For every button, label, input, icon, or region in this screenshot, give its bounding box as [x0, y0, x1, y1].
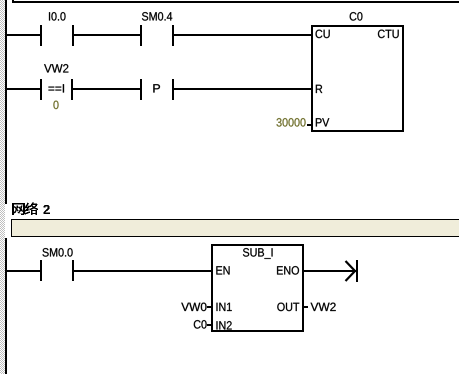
- wire rail to compare contact: [7, 88, 40, 90]
- wire rail to contact SM0.0: [7, 270, 40, 272]
- positive edge contact P: [140, 79, 174, 100]
- network 2 comment bar: [11, 219, 459, 237]
- left margin dither strip: [0, 0, 5, 374]
- IN1 operand VW0: [181, 303, 212, 311]
- SUB_I box: [212, 245, 303, 331]
- contact SM0.0: [40, 248, 74, 281]
- compare contact VW2 ==I 0: [40, 64, 73, 109]
- IN2 operand C0: [194, 320, 211, 328]
- wire I0.0 to SM0.4: [74, 34, 140, 36]
- left power rail network 2: [5, 238, 7, 374]
- PV operand 30000: [277, 118, 312, 126]
- wire P contact to counter R input: [174, 88, 311, 90]
- wire ENO output: [304, 270, 356, 272]
- open branch arrow: [346, 260, 359, 282]
- contact I0.0: [40, 12, 74, 46]
- network 1 comment bar bottom edge: [12, 0, 459, 3]
- counter C0 box CTU: [312, 12, 403, 131]
- left power rail network 1: [5, 0, 7, 204]
- wire compare to P contact: [73, 88, 140, 90]
- contact SM0.4: [140, 12, 174, 46]
- OUT operand VW2: [304, 303, 336, 311]
- wire SM0.4 to counter CU input: [174, 34, 311, 36]
- wire rail to contact I0.0: [7, 34, 40, 36]
- wire SM0.0 to SUB_I EN input: [74, 270, 211, 272]
- network 2 title 网络 2: [12, 202, 50, 215]
